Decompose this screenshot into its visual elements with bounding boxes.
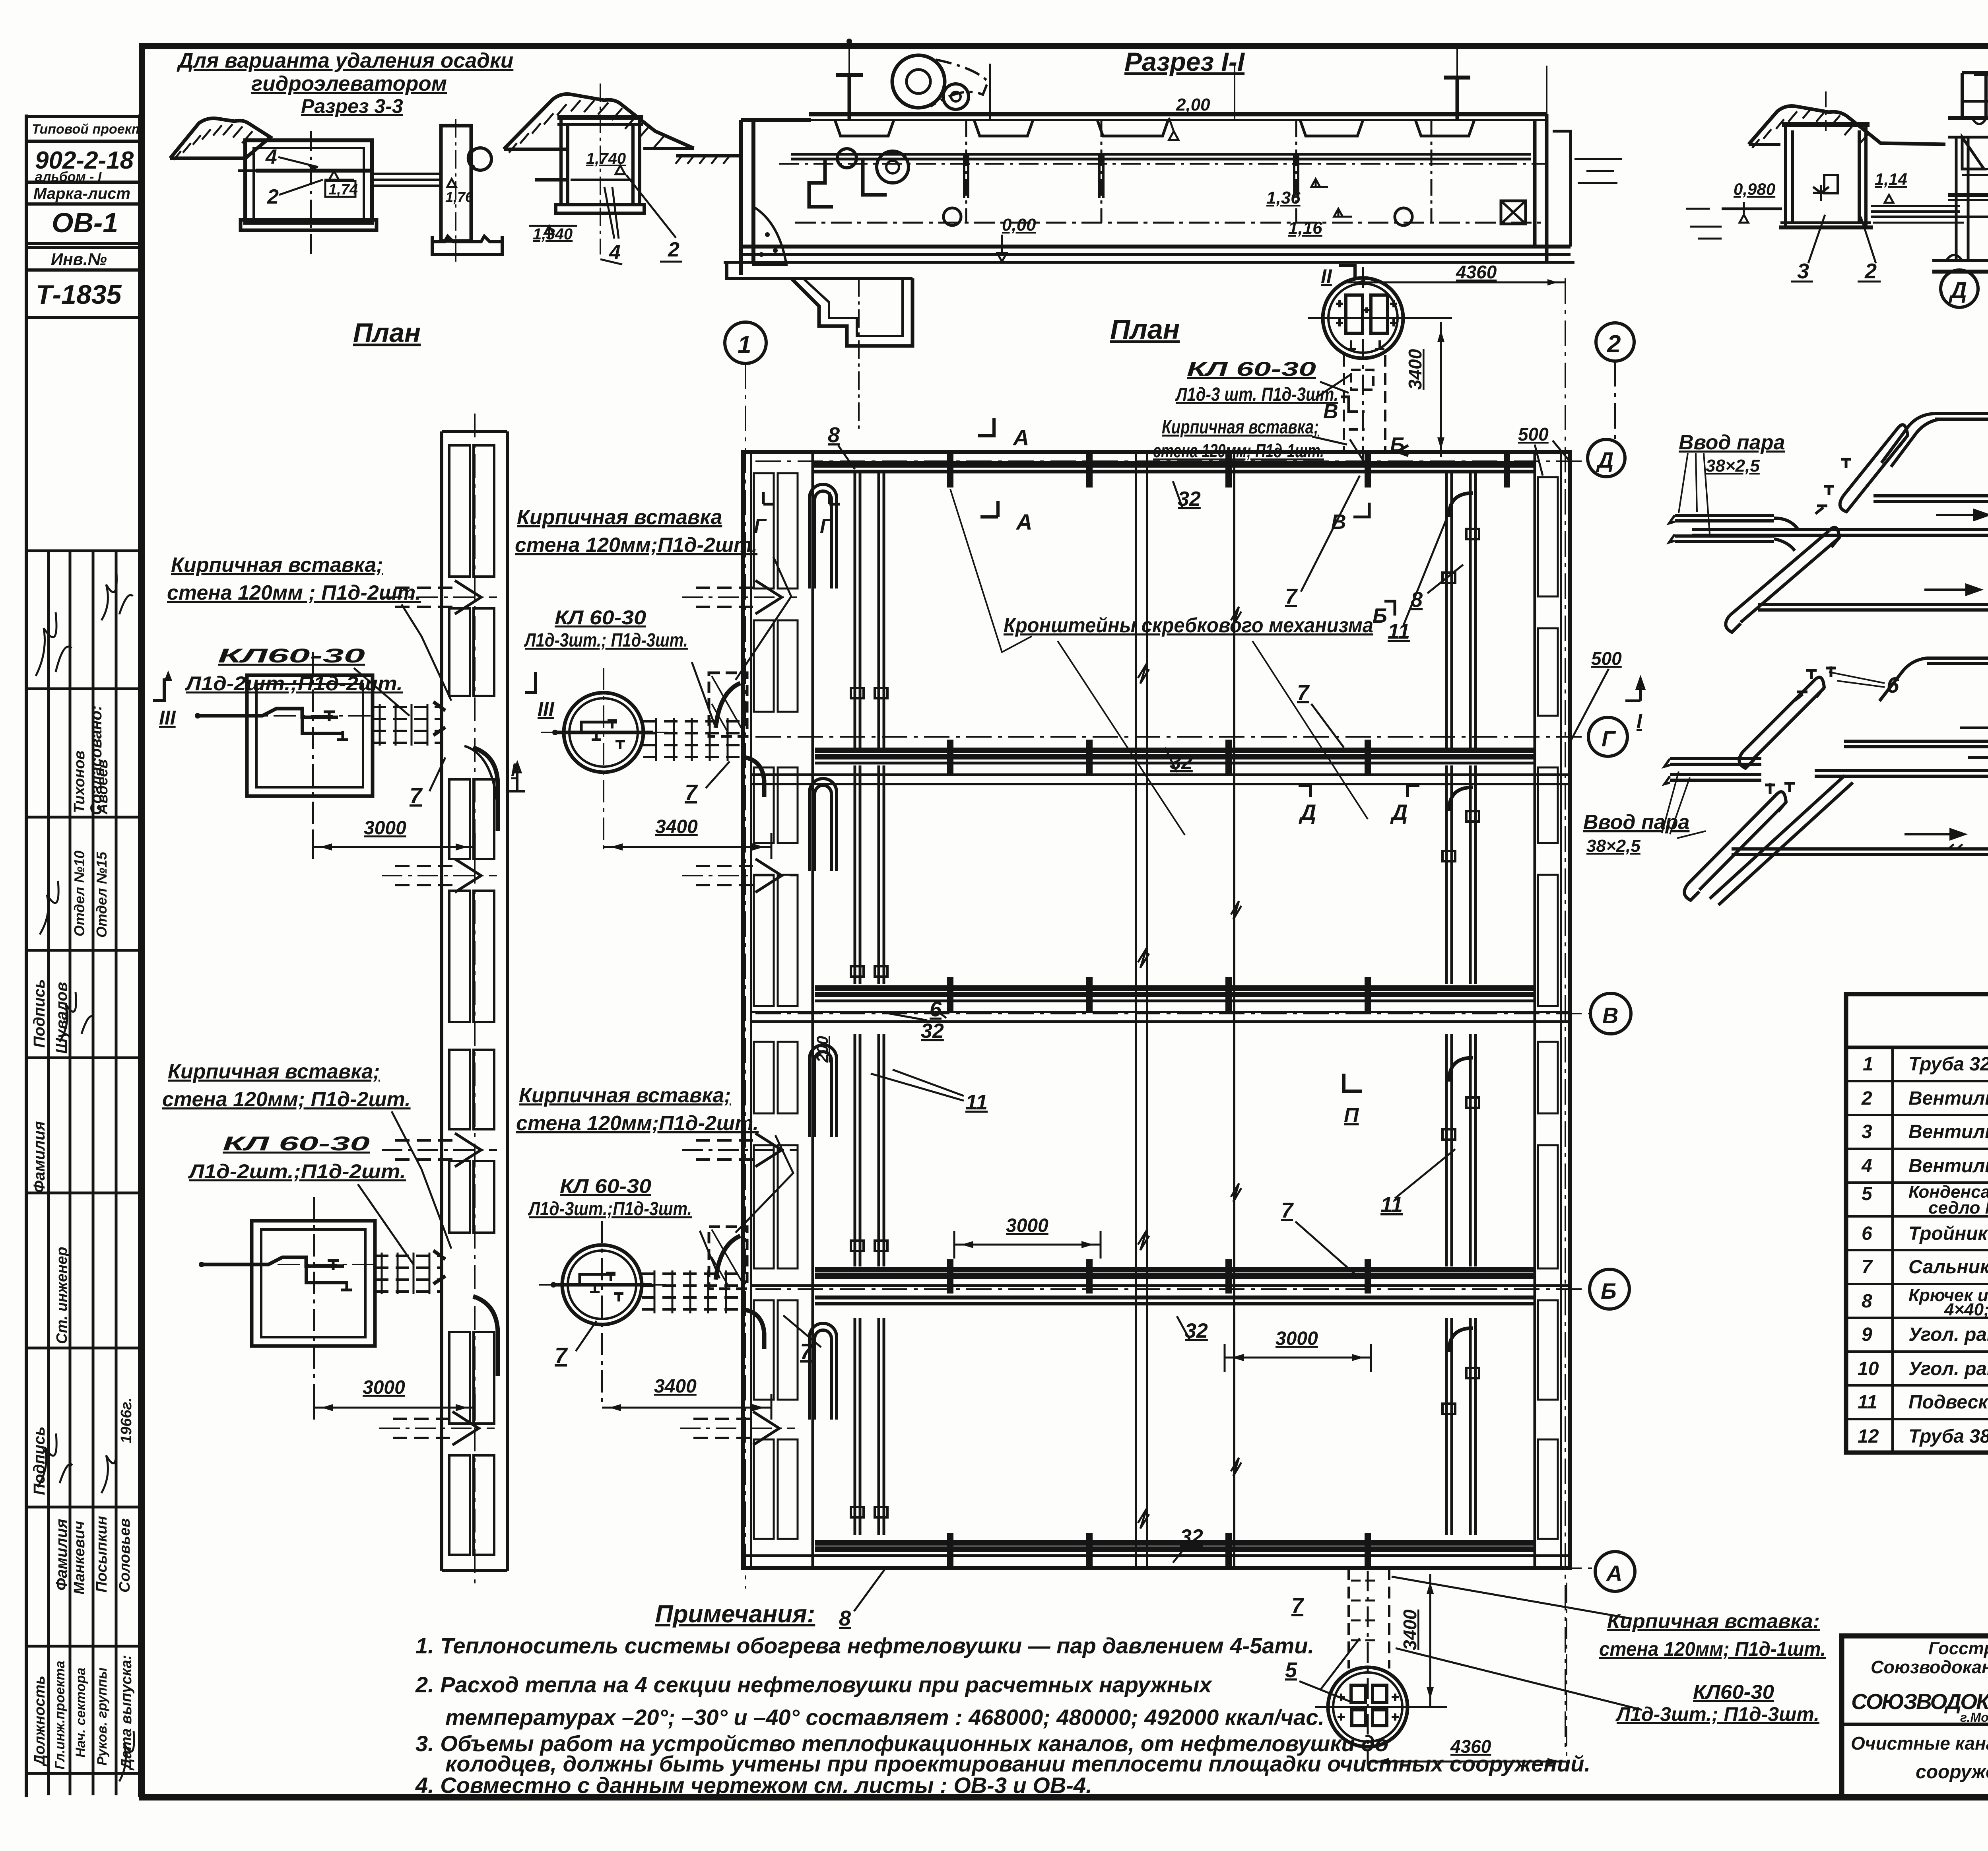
section mark I upper bbox=[511, 759, 516, 780]
svg-text:7: 7 bbox=[685, 780, 698, 805]
ground at left of section bbox=[676, 154, 741, 157]
svg-text:8: 8 bbox=[828, 423, 840, 447]
svg-text:Госстрой СССР: Госстрой СССР bbox=[1928, 1639, 1988, 1658]
svg-text:7: 7 bbox=[1297, 681, 1310, 705]
svg-text:7: 7 bbox=[555, 1343, 568, 1368]
wall strip 1 bbox=[442, 414, 507, 1587]
svg-text:План: План bbox=[1110, 314, 1180, 345]
svg-text:Фамилия: Фамилия bbox=[53, 1519, 70, 1591]
svg-text:500: 500 bbox=[1518, 424, 1549, 445]
row lines bbox=[1846, 1081, 1988, 1419]
flow arrows group 1 bbox=[1924, 394, 1988, 594]
ground line and pipes to structure bbox=[1722, 208, 1782, 210]
svg-text:Типовой проект: Типовой проект bbox=[32, 122, 144, 137]
svg-text:Сальник набивной d 32: Сальник набивной d 32 bbox=[1908, 1257, 1988, 1278]
pipe support ticks bbox=[950, 453, 1507, 1567]
В Б marks top bbox=[1323, 400, 1405, 627]
valve symbols in chamber bbox=[1813, 185, 1829, 201]
svg-text:1,14: 1,14 bbox=[1875, 170, 1907, 188]
brick insert lower bbox=[709, 1227, 747, 1289]
svg-text:КЛ60-30: КЛ60-30 bbox=[1693, 1681, 1774, 1703]
svg-text:План: План bbox=[353, 318, 421, 348]
svg-text:Б: Б bbox=[1601, 1278, 1617, 1303]
title block frame bbox=[1842, 1636, 1988, 1797]
svg-text:А: А bbox=[1012, 425, 1029, 450]
institute names bbox=[1851, 1639, 1988, 1783]
svg-text:0,00: 0,00 bbox=[1002, 215, 1036, 235]
dim 4360 bottom bbox=[1450, 1736, 1491, 1757]
S-drop pipe in strip1 (lower) bbox=[473, 1296, 498, 1376]
group 2 run D bbox=[1732, 844, 1988, 855]
riser corner arcs right bbox=[1449, 493, 1473, 1352]
svg-text:1,16: 1,16 bbox=[1288, 218, 1322, 238]
grid axis В bbox=[755, 1013, 1590, 1014]
svg-text:200: 200 bbox=[814, 1036, 831, 1063]
svg-text:Тройник с пробкой 32: Тройник с пробкой 32 bbox=[1908, 1223, 1988, 1244]
svg-text:Марка-лист: Марка-лист bbox=[33, 185, 130, 202]
group 2 left riser loop upper bbox=[1739, 677, 1824, 768]
svg-text:4. Совместно с данным черт: 4. Совместно с данным чертежом см. листы… bbox=[415, 1773, 1092, 1798]
water ripples left bbox=[1690, 227, 1722, 239]
svg-text:2,00: 2,00 bbox=[1176, 95, 1210, 115]
svg-text:38×2,5: 38×2,5 bbox=[1586, 836, 1640, 856]
dim 1,340 bbox=[545, 226, 553, 234]
svg-text:1,76: 1,76 bbox=[445, 189, 474, 205]
pipe run В bbox=[815, 985, 1535, 991]
Д Д section marks bbox=[1299, 800, 1408, 825]
svg-text:1,74: 1,74 bbox=[328, 181, 358, 198]
svg-text:10: 10 bbox=[1858, 1358, 1879, 1379]
group 2 run C bbox=[1815, 766, 1988, 776]
svg-text:стена 120мм;П1д-2шт.: стена 120мм;П1д-2шт. bbox=[516, 1112, 759, 1135]
water level and bottom bbox=[795, 222, 1543, 224]
group 2 run A bbox=[1927, 653, 1988, 664]
svg-text:Кирпичная вставка;: Кирпичная вставка; bbox=[1162, 417, 1319, 438]
svg-text:Д: Д bbox=[1299, 800, 1316, 825]
svg-text:температурах –20°; –30° и –40: температурах –20°; –30° и –40° составляе… bbox=[445, 1705, 1324, 1730]
riser flanges left bbox=[851, 688, 887, 1517]
svg-text:32: 32 bbox=[1170, 751, 1193, 774]
flow arrows into strips bbox=[379, 581, 797, 1445]
svg-text:Кирпичная вставка: Кирпичная вставка bbox=[517, 506, 722, 529]
tank top platform bbox=[809, 112, 1547, 117]
svg-text:3: 3 bbox=[1862, 1121, 1872, 1142]
title Разрез I-I bbox=[1124, 47, 1245, 76]
centre wall bbox=[1135, 452, 1137, 1568]
right end wall bbox=[1535, 114, 1547, 262]
grid axis А bbox=[755, 1567, 1595, 1569]
svg-text:3000: 3000 bbox=[363, 1377, 405, 1398]
pipe run Д bbox=[813, 461, 1535, 468]
svg-text:КЛ 60-30: КЛ 60-30 bbox=[223, 1132, 370, 1155]
svg-text:Подвеска для трубы 32: Подвеска для трубы 32 bbox=[1908, 1392, 1988, 1413]
svg-text:1,36: 1,36 bbox=[1266, 188, 1301, 208]
svg-text:32: 32 bbox=[921, 1020, 944, 1043]
svg-text:Угол. равнобок. 63×63×5 (опора: Угол. равнобок. 63×63×5 (опора) bbox=[1908, 1324, 1988, 1345]
gland fitting at strip1 bbox=[433, 702, 445, 735]
svg-text:Г: Г bbox=[754, 515, 767, 537]
svg-text:11: 11 bbox=[1858, 1392, 1877, 1413]
svg-text:1: 1 bbox=[1863, 1054, 1873, 1075]
П section mark mid bbox=[1344, 1104, 1359, 1127]
pipe U-loops at section tops bbox=[810, 484, 837, 1420]
labels upper-right: Кирпичная вставка bbox=[515, 506, 757, 557]
svg-text:7: 7 bbox=[1285, 585, 1298, 608]
tank interior: pipe run along length bbox=[791, 153, 1531, 156]
svg-text:Д: Д bbox=[1948, 278, 1967, 303]
dim 3400 upper bbox=[655, 816, 698, 837]
under-deck pipes bbox=[1962, 168, 1988, 170]
label 7 lower-right bbox=[800, 1339, 813, 1364]
svg-text:4×40; l = 130: 4×40; l = 130 bbox=[1944, 1300, 1988, 1319]
svg-text:11: 11 bbox=[1388, 620, 1410, 643]
svg-text:4: 4 bbox=[609, 241, 621, 264]
scraper machinery pulleys bbox=[892, 55, 945, 108]
svg-text:стена 120мм;П1д-2шт.: стена 120мм;П1д-2шт. bbox=[515, 534, 757, 557]
section mark III left bbox=[159, 707, 176, 729]
labels 3 and 2 with leaders bbox=[1797, 259, 1877, 283]
svg-text:2: 2 bbox=[1861, 1088, 1872, 1109]
elevation 2,00 bbox=[1176, 95, 1210, 115]
lower circular chamber bbox=[539, 1221, 666, 1408]
dim 3000 upper bbox=[364, 818, 406, 839]
Г letters inside bbox=[754, 515, 833, 537]
svg-text:В: В bbox=[1323, 400, 1338, 423]
svg-text:КЛ 60-30: КЛ 60-30 bbox=[1187, 358, 1316, 380]
pipe run А bbox=[815, 1540, 1535, 1546]
group 1 run D bbox=[1758, 600, 1988, 610]
svg-text:А: А bbox=[1606, 1561, 1622, 1586]
sump pit under tank bbox=[727, 262, 912, 278]
svg-text:Гл.инж.проекта: Гл.инж.проекта bbox=[52, 1661, 68, 1769]
svg-text:Посыпкин: Посыпкин bbox=[93, 1516, 110, 1593]
svg-text:А: А bbox=[1015, 509, 1032, 534]
svg-text:сооружения: сооружения bbox=[1916, 1762, 1988, 1783]
dim 3400 lower bbox=[654, 1376, 697, 1397]
rod hangers bbox=[989, 64, 991, 119]
crossed box right bbox=[1501, 201, 1526, 224]
group 2 tees at loops bbox=[1795, 666, 1836, 701]
wall hatch triangle bbox=[753, 207, 786, 265]
labels upper-right: КЛ 60-30 bbox=[524, 606, 688, 651]
svg-text:Л1д-3шт.;П1д-3шт.: Л1д-3шт.;П1д-3шт. bbox=[528, 1198, 692, 1220]
dim 3000 lower bbox=[363, 1377, 405, 1398]
svg-text:Т-1835: Т-1835 bbox=[36, 280, 122, 310]
centre division line 2 bbox=[1233, 452, 1235, 1568]
svg-text:7: 7 bbox=[1862, 1257, 1873, 1278]
water ripples right bbox=[1574, 159, 1622, 183]
label 7 upper-right bbox=[685, 780, 698, 805]
svg-text:Кирпичная вставка;: Кирпичная вставка; bbox=[519, 1084, 731, 1107]
label 4 with leader bbox=[265, 146, 277, 169]
svg-text:3400: 3400 bbox=[654, 1376, 697, 1397]
pillar with hydroelevator bbox=[441, 126, 471, 241]
label 7 upper-left bbox=[410, 783, 423, 808]
svg-text:4360: 4360 bbox=[1456, 262, 1497, 282]
svg-text:Манкевич: Манкевич bbox=[71, 1521, 88, 1595]
risers right bbox=[1446, 473, 1475, 1535]
upper circular chamber bbox=[541, 668, 668, 851]
elbow into basin (upper) bbox=[743, 757, 764, 797]
stamp box: Марка-лист bbox=[26, 182, 140, 204]
svg-text:I: I bbox=[1637, 710, 1642, 732]
svg-text:2. Расход тепла на 4 секции: 2. Расход тепла на 4 секции нефтеловушки… bbox=[415, 1672, 1213, 1697]
labels 11 / 6 / 8 lower bbox=[839, 997, 1403, 1630]
group 1 left riser loop upper bbox=[1840, 425, 1908, 512]
pipe run Г bbox=[815, 748, 1535, 753]
pipe channel: lower square chamber to strip1 bbox=[375, 1256, 442, 1292]
svg-text:Кирпичная вставка;: Кирпичная вставка; bbox=[171, 554, 383, 577]
elevation 0,980 bbox=[1734, 180, 1775, 198]
title План (main) bbox=[1110, 314, 1180, 345]
table rows text bbox=[1858, 1054, 1988, 1447]
svg-text:4: 4 bbox=[1861, 1156, 1872, 1177]
group 1 run B bbox=[1873, 491, 1988, 501]
labels 4 and 2 of tank2 bbox=[609, 238, 679, 264]
svg-text:Авдеев: Авдеев bbox=[94, 759, 111, 815]
svg-text:Подпись: Подпись bbox=[31, 979, 48, 1048]
risers left bbox=[855, 473, 884, 1535]
section mark III right bbox=[538, 698, 555, 720]
stamp box: 902-2-18 bbox=[26, 141, 140, 182]
svg-text:38×2,5: 38×2,5 bbox=[1706, 456, 1760, 476]
elevation 0,00 bbox=[1002, 215, 1036, 235]
group 1 left riser loop lower bbox=[1726, 527, 1839, 632]
connecting pipes to pillar bbox=[372, 174, 441, 186]
svg-text:Л1д-3шт.; П1д-3шт.: Л1д-3шт.; П1д-3шт. bbox=[1615, 1703, 1819, 1725]
svg-text:3000: 3000 bbox=[1276, 1328, 1318, 1349]
svg-text:Труба 38×2,5: Труба 38×2,5 bbox=[1908, 1426, 1988, 1447]
S-drop pipe in strip1 bbox=[473, 748, 498, 831]
brick insert in plan wall (upper) bbox=[709, 673, 747, 736]
valve stem left bbox=[848, 75, 851, 119]
svg-text:9: 9 bbox=[1862, 1324, 1872, 1345]
svg-text:6: 6 bbox=[1887, 672, 1899, 697]
pipe drops left bbox=[809, 159, 833, 207]
pillar foot bbox=[432, 236, 502, 254]
svg-text:Л1д-2шт.;П1д-2шт.: Л1д-2шт.;П1д-2шт. bbox=[188, 1160, 406, 1183]
svg-text:Труба 32: Труба 32 bbox=[1908, 1054, 1988, 1075]
labels lower-left: КЛ 60-30 bbox=[188, 1132, 406, 1183]
svg-text:Л1д-2шт.;П1д-2шт.: Л1д-2шт.;П1д-2шт. bbox=[185, 672, 403, 695]
water level line in tank bbox=[256, 169, 370, 173]
Ввод пара label bottom bbox=[1583, 811, 1689, 856]
svg-text:3000: 3000 bbox=[1006, 1215, 1048, 1236]
svg-text:стена 120мм ; П1д-2шт.: стена 120мм ; П1д-2шт. bbox=[167, 581, 421, 604]
svg-text:стена 120мм; П1д-1шт.: стена 120мм; П1д-1шт. bbox=[1153, 441, 1324, 462]
svg-text:седло №2 (муфтовый): седло №2 (муфтовый) bbox=[1928, 1198, 1988, 1218]
pipe channel: circle chamber to plan wall bbox=[643, 721, 745, 757]
Кронштейны label bbox=[1004, 614, 1373, 637]
title: Для варианта удаления осадки bbox=[177, 49, 513, 117]
svg-text:Вентиль Р 16; d 20 (муфтовый): Вентиль Р 16; d 20 (муфтовый) bbox=[1908, 1088, 1988, 1109]
ground mound left of chamber bbox=[1749, 106, 1945, 145]
axis line 2 / right wall axis bbox=[1565, 278, 1566, 1753]
label 6 group2 bbox=[1887, 672, 1899, 697]
svg-text:Кирпичная вставка:: Кирпичная вставка: bbox=[1607, 1610, 1820, 1632]
elevation 1,74 bbox=[329, 171, 339, 180]
svg-text:Ст. инженер: Ст. инженер bbox=[54, 1247, 70, 1344]
svg-text:Д: Д bbox=[1390, 800, 1408, 825]
svg-text:КЛ 60-30: КЛ 60-30 bbox=[555, 606, 646, 629]
axis line of tank bbox=[310, 131, 312, 254]
top manhole chamber bbox=[1308, 267, 1452, 473]
svg-text:1. Теплоноситель системы обо: 1. Теплоноситель системы обогрева нефтел… bbox=[415, 1633, 1314, 1658]
svg-text:II: II bbox=[1321, 265, 1332, 287]
dim 3400 vertical bottom bbox=[1400, 1609, 1420, 1650]
svg-text:5: 5 bbox=[1862, 1183, 1873, 1204]
valve stem right bbox=[1456, 78, 1459, 119]
svg-text:Д: Д bbox=[1596, 447, 1613, 472]
svg-text:III: III bbox=[538, 698, 555, 720]
axis circles Д Г В bbox=[1941, 270, 1988, 320]
svg-text:стена 120мм; П1д-2шт.: стена 120мм; П1д-2шт. bbox=[162, 1088, 411, 1111]
labels 32 bbox=[921, 488, 1208, 1548]
svg-text:3400: 3400 bbox=[655, 816, 698, 837]
labels lower-right: Кирпичная вставка bbox=[516, 1084, 759, 1135]
svg-text:Должность: Должность bbox=[31, 1676, 48, 1767]
floor line bbox=[1686, 209, 1964, 223]
svg-text:500: 500 bbox=[1591, 648, 1622, 669]
svg-text:7: 7 bbox=[410, 783, 423, 808]
svg-text:Примечания:: Примечания: bbox=[655, 1600, 815, 1628]
I section mark right bbox=[1637, 710, 1642, 732]
ground mound right bbox=[504, 94, 694, 150]
stamp box: Типовой проект bbox=[26, 117, 140, 141]
svg-text:1: 1 bbox=[738, 331, 751, 359]
svg-text:8: 8 bbox=[839, 1606, 851, 1630]
svg-text:Для варианта удаления осадки: Для варианта удаления осадки bbox=[177, 49, 513, 72]
svg-text:Соловьев: Соловьев bbox=[116, 1518, 133, 1593]
Ввод пара label top bbox=[1679, 431, 1785, 476]
label КЛ 60-30 top bbox=[1153, 358, 1338, 462]
group 1 run A bbox=[1935, 409, 1988, 419]
svg-text:3000: 3000 bbox=[364, 818, 406, 839]
pipe run Б bbox=[815, 1267, 1535, 1272]
svg-text:В: В bbox=[1602, 1003, 1618, 1028]
svg-text:5: 5 bbox=[1285, 1658, 1297, 1682]
svg-text:Фамилия: Фамилия bbox=[31, 1121, 48, 1193]
svg-text:7: 7 bbox=[1291, 1594, 1305, 1618]
dim 3400 vertical top bbox=[1405, 349, 1425, 390]
stamp box: Инв № bbox=[26, 247, 140, 270]
svg-text:12: 12 bbox=[1858, 1426, 1879, 1447]
svg-text:КЛ 60-30: КЛ 60-30 bbox=[560, 1175, 651, 1197]
svg-text:Л1д-3шт.; П1д-3шт.: Л1д-3шт.; П1д-3шт. bbox=[524, 630, 688, 651]
svg-text:Отдел №15: Отдел №15 bbox=[93, 851, 110, 938]
pipe channel: square chamber to strip1 bbox=[373, 707, 442, 743]
svg-text:32: 32 bbox=[1180, 1525, 1203, 1548]
label 5 bottom bbox=[1285, 1658, 1297, 1682]
tank base plate bbox=[241, 220, 377, 230]
labels 7 / 11 / 8 top zone bbox=[828, 423, 1423, 643]
interior columns dashed bbox=[966, 120, 1431, 223]
labels lower-right: КЛ 60-30 bbox=[528, 1175, 692, 1220]
svg-text:Нач. сектора: Нач. сектора bbox=[73, 1668, 88, 1758]
strip 1 wall panels bbox=[449, 445, 494, 1555]
svg-text:Союзводоканалниипроект: Союзводоканалниипроект bbox=[1871, 1657, 1988, 1677]
svg-text:6: 6 bbox=[1862, 1223, 1872, 1244]
svg-text:Руков. группы: Руков. группы bbox=[95, 1667, 110, 1766]
left wall panels bbox=[754, 473, 798, 1539]
tank bottom / base bbox=[741, 245, 1571, 249]
svg-text:Ввод пара: Ввод пара bbox=[1679, 431, 1785, 454]
label 7 lower-left bbox=[555, 1343, 568, 1368]
svg-text:Разрез I-I: Разрез I-I bbox=[1124, 47, 1245, 76]
riser flanges right bbox=[1442, 529, 1479, 1414]
labels upper-left: КЛ 60-30 bbox=[185, 645, 403, 695]
platform supports (trapezoids) bbox=[835, 120, 894, 136]
signature grid bbox=[47, 551, 50, 1795]
left stamp column bbox=[25, 115, 28, 1797]
group 2 run B bbox=[1844, 736, 1988, 747]
group 1 inlet pipes bbox=[1675, 515, 1774, 542]
svg-text:Кронштейны скребкового механи: Кронштейны скребкового механизма bbox=[1004, 614, 1373, 637]
ground mound left bbox=[170, 118, 270, 159]
svg-text:2: 2 bbox=[267, 185, 279, 208]
label 2 with leader bbox=[267, 185, 279, 208]
dims 3000 inside bbox=[1006, 1215, 1318, 1349]
upper square chamber bbox=[195, 652, 373, 851]
svg-text:2: 2 bbox=[1607, 330, 1621, 358]
title План (left) bbox=[353, 318, 421, 348]
tank 2 section bbox=[557, 115, 643, 120]
section mark II bottom bbox=[1321, 265, 1332, 287]
svg-text:Л1д-3 шт. П1д-3шт.: Л1д-3 шт. П1д-3шт. bbox=[1175, 384, 1338, 405]
basin outer walls bbox=[743, 452, 1570, 1568]
axis circle 1 bbox=[725, 322, 766, 363]
dim 4360 bottom bbox=[1456, 262, 1497, 282]
svg-text:3: 3 bbox=[1797, 259, 1809, 283]
section marks А bbox=[1012, 425, 1032, 534]
deck slab with notches bbox=[1948, 116, 1988, 120]
svg-text:Отдел №10: Отдел №10 bbox=[71, 851, 87, 936]
elevation 1,36 / 1,16 bbox=[1266, 188, 1322, 238]
group 2 long inlet diagonal bbox=[1710, 775, 1853, 905]
svg-text:3400: 3400 bbox=[1400, 1609, 1420, 1650]
svg-text:1,340: 1,340 bbox=[533, 225, 573, 243]
flow arrows group 2 bbox=[1905, 639, 1988, 839]
long tank left wall bbox=[741, 120, 811, 275]
500 labels right bbox=[1518, 424, 1622, 669]
svg-text:КЛ60-30: КЛ60-30 bbox=[218, 645, 365, 667]
heat chamber section bbox=[1782, 122, 1870, 127]
elevation 1,76 small bbox=[447, 179, 456, 187]
svg-text:2: 2 bbox=[668, 238, 679, 261]
labels near bottom manhole bbox=[1599, 1610, 1826, 1725]
group 1 run C bbox=[1692, 525, 1988, 535]
svg-text:Очистные канализационные: Очистные канализационные bbox=[1851, 1733, 1988, 1754]
header bottom bbox=[1846, 1046, 1988, 1049]
long structure: top rail bbox=[1962, 71, 1988, 74]
svg-text:Инв.№: Инв.№ bbox=[51, 250, 107, 268]
group 2 left riser loop lower bbox=[1684, 792, 1786, 900]
svg-text:Угол. равнобок. 25×25×3 (упор): Угол. равнобок. 25×25×3 (упор) bbox=[1908, 1358, 1988, 1379]
table frame bbox=[1846, 994, 1988, 1453]
bottom manhole chamber bbox=[1315, 1568, 1420, 1766]
columns down to base bbox=[1956, 137, 1968, 260]
svg-text:В: В bbox=[1331, 511, 1346, 534]
svg-text:Вентиль Р 16; d 25 (муфтовый): Вентиль Р 16; d 25 (муфтовый) bbox=[1908, 1121, 1988, 1142]
svg-text:8: 8 bbox=[1862, 1291, 1872, 1312]
grid axis Б bbox=[755, 1288, 1590, 1290]
svg-text:ОВ-1: ОВ-1 bbox=[52, 207, 118, 238]
svg-text:Б: Б bbox=[1373, 604, 1387, 627]
labels 7 mid/bottom bbox=[1281, 681, 1310, 1618]
group 1 tees at loop tops bbox=[1815, 458, 1851, 514]
stamp box: Т-1835 bbox=[26, 270, 140, 318]
grid axis Д bbox=[755, 460, 1587, 462]
